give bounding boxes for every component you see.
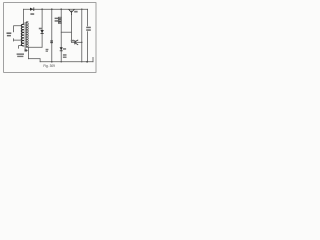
wire: transformer leg vertical x=28.4	[27, 47, 29, 58]
label Q-1	[74, 11, 77, 13]
junction dot at Q-2 link x=82	[81, 42, 82, 43]
resistor R-1 box	[58, 17, 61, 23]
plug prong upper	[13, 30, 14, 33]
diode D-2	[40, 30, 43, 33]
capacitor C-1 plates	[50, 41, 53, 43]
wire: bottom rail end stub	[92, 57, 94, 61]
junction dot top x=82	[81, 9, 82, 10]
transistor Q-2	[75, 40, 78, 45]
wire: branch vertical x=82	[81, 9, 83, 62]
label on x=88 wire (two lines)	[86, 26, 91, 31]
background	[0, 0, 100, 77]
junction dot bottom x=87.7	[86, 61, 88, 63]
wire: Q-2 link to x=82	[71, 41, 81, 43]
border frame	[4, 3, 96, 73]
wire: Q-1 emitter drop	[70, 15, 72, 43]
transformer T-1 secondary top tick	[26, 21, 28, 23]
transformer bottom tick	[27, 50, 28, 52]
transistor Q-1	[69, 9, 75, 15]
wire: C-1 branch vertical	[51, 9, 53, 62]
wire: horizontal y=58.7	[28, 58, 40, 60]
wire: bottom rail	[40, 61, 93, 63]
label D-2	[39, 28, 42, 30]
wire: primary input stub A	[14, 26, 22, 30]
svg-text:Fig. 309: Fig. 309	[43, 64, 55, 68]
label: 117V input text	[7, 32, 12, 36]
wire: vertical x=40.1 to bottom rail	[39, 59, 41, 62]
wire: R-1/D-3 branch vertical	[60, 9, 62, 62]
wire: L-link from R-1 branch to Q-1 drop	[61, 31, 71, 33]
wire: top rail right end drop	[87, 9, 89, 62]
wire: primary input stub B	[14, 39, 22, 40]
transformer T-1 secondary winding (right small arcs)	[26, 23, 28, 47]
wire: horizontal y=47.3 from transformer to D-2 branch	[26, 46, 42, 48]
junction dot top x=51.8	[51, 8, 53, 10]
diode D-3	[60, 47, 63, 50]
junction dot bottom x=82	[81, 61, 82, 62]
transformer T-1 primary winding (left arcs)	[21, 24, 24, 46]
junction dot bottom x=51.8	[51, 61, 53, 63]
junction dot top x=61.2	[60, 8, 62, 10]
label D-3 two lines	[63, 48, 67, 58]
diode D-1	[30, 8, 34, 11]
wire: top rail	[24, 8, 88, 10]
wire: primary input stub C	[19, 46, 22, 49]
wire: drop from top rail to transformer	[23, 9, 25, 24]
transformer bottom terminal blob	[25, 49, 28, 51]
junction dot bottom x=61.2	[61, 61, 62, 62]
label Q-2	[71, 40, 74, 42]
label C-1 (below left)	[46, 49, 49, 52]
wire: D-2 branch vertical	[41, 9, 43, 47]
plug prong lower	[13, 39, 14, 42]
label R-1	[55, 18, 58, 22]
label D-1	[30, 13, 34, 15]
transformer T-1 core lines	[25, 22, 26, 50]
label: under transformer	[17, 53, 24, 57]
junction dot top x=42.1	[41, 8, 43, 10]
